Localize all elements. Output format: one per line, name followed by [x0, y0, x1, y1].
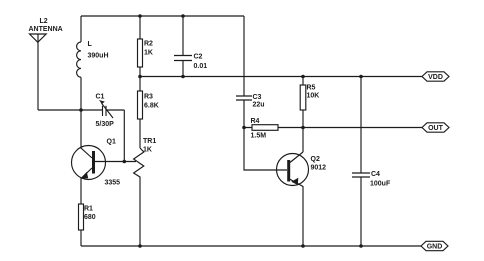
- svg-text:GND: GND: [427, 244, 443, 251]
- svg-text:Q2: Q2: [311, 156, 320, 163]
- svg-text:OUT: OUT: [428, 125, 444, 132]
- svg-text:3355: 3355: [105, 180, 121, 187]
- svg-text:R4: R4: [251, 118, 260, 125]
- svg-text:0.01: 0.01: [194, 63, 208, 70]
- svg-text:390uH: 390uH: [88, 53, 109, 60]
- svg-text:R1: R1: [84, 206, 93, 213]
- svg-text:6.8K: 6.8K: [144, 103, 159, 110]
- svg-text:C3: C3: [253, 94, 262, 101]
- svg-text:5/30P: 5/30P: [96, 121, 115, 128]
- svg-text:C2: C2: [194, 54, 203, 61]
- svg-text:L: L: [88, 41, 93, 48]
- svg-text:VDD: VDD: [428, 74, 443, 81]
- svg-text:R5: R5: [307, 85, 316, 92]
- svg-text:680: 680: [84, 214, 96, 221]
- svg-text:1K: 1K: [144, 50, 153, 57]
- svg-text:R2: R2: [144, 41, 153, 48]
- svg-text:9012: 9012: [311, 165, 327, 172]
- svg-text:10K: 10K: [307, 93, 320, 100]
- svg-text:1.5M: 1.5M: [251, 133, 267, 140]
- svg-text:22u: 22u: [253, 102, 265, 109]
- svg-text:L2: L2: [40, 18, 48, 25]
- svg-text:Q1: Q1: [107, 139, 116, 146]
- svg-text:C4: C4: [371, 171, 380, 178]
- svg-text:1K: 1K: [143, 147, 152, 154]
- svg-text:R3: R3: [144, 94, 153, 101]
- svg-text:TR1: TR1: [143, 138, 156, 145]
- svg-text:100uF: 100uF: [370, 181, 391, 188]
- svg-text:C1: C1: [96, 94, 105, 101]
- svg-text:ANTENNA: ANTENNA: [29, 26, 63, 33]
